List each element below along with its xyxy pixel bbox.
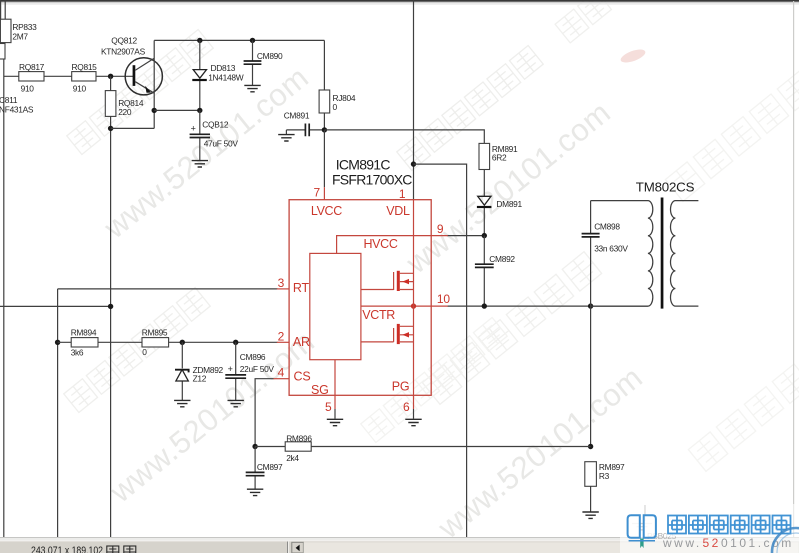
svg-text:CS: CS <box>294 370 311 384</box>
svg-text:5: 5 <box>325 400 332 414</box>
node AR branch <box>55 340 60 345</box>
svg-text:+: + <box>228 364 233 374</box>
resistor RM897 R3 <box>585 462 597 487</box>
svg-text:2: 2 <box>278 329 285 343</box>
transformer TM802CS <box>591 180 699 309</box>
capacitor CM892 <box>475 236 516 307</box>
svg-text:TM802CS: TM802CS <box>636 180 695 195</box>
transistor QQ812 KTN2907AS <box>101 36 162 129</box>
node CM898 bottom <box>588 303 593 308</box>
svg-text:RQ815: RQ815 <box>72 62 98 72</box>
svg-text:DD813: DD813 <box>211 63 236 73</box>
node CQB12 top <box>197 108 202 113</box>
svg-text:0: 0 <box>142 347 147 357</box>
capacitor CM898 33n 630V <box>582 201 629 307</box>
svg-text:DM891: DM891 <box>496 199 522 209</box>
IC outer box <box>289 200 431 396</box>
svg-text:CM897: CM897 <box>257 462 283 472</box>
svg-text:0: 0 <box>333 102 338 112</box>
status bar <box>0 537 799 553</box>
svg-text:3: 3 <box>278 276 285 290</box>
wire top bus <box>154 39 324 41</box>
wire rail to x466 <box>414 164 467 540</box>
svg-text:910: 910 <box>73 84 87 94</box>
right canvas border <box>793 1 795 540</box>
svg-text:ICM891C: ICM891C <box>336 157 391 173</box>
wire bus to RJ804 <box>323 40 325 90</box>
svg-text:QQ812: QQ812 <box>111 36 137 46</box>
svg-text:1N4148W: 1N4148W <box>208 73 244 83</box>
wire vcc rail to RM891 <box>324 130 484 144</box>
svg-text:3k6: 3k6 <box>71 348 84 358</box>
ground pin6 <box>405 419 421 425</box>
svg-text:2k4: 2k4 <box>286 453 299 463</box>
node CM890 top <box>250 38 255 43</box>
svg-text:CM896: CM896 <box>240 352 266 362</box>
diode DD813 1N4148W <box>192 40 243 110</box>
diode DM891 <box>477 170 523 236</box>
node VDL rail <box>411 161 416 166</box>
capacitor CM891 <box>284 111 325 137</box>
svg-text:RM895: RM895 <box>142 327 168 337</box>
svg-text:CM890: CM890 <box>257 51 283 61</box>
clipped component at left edge <box>0 44 5 60</box>
ground CQB12 <box>192 161 208 167</box>
capacitor CM890 <box>244 40 283 85</box>
svg-text:RM894: RM894 <box>71 327 97 337</box>
node VCTR red junction <box>411 303 416 308</box>
node CS/RM896/CM897 <box>252 444 257 449</box>
resistor RM891 <box>479 143 490 169</box>
resistor RM896 2k4 <box>285 442 311 451</box>
svg-text:1: 1 <box>399 187 406 201</box>
svg-text:CQB12: CQB12 <box>202 120 229 130</box>
wire net row y76 <box>4 75 134 77</box>
svg-text:22uF 50V: 22uF 50V <box>240 364 275 374</box>
svg-text:33n 630V: 33n 630V <box>594 244 628 254</box>
scrollbar left arrow <box>292 542 304 553</box>
svg-text:R3: R3 <box>599 471 610 481</box>
wire RT net <box>58 288 278 290</box>
wire left clipped edge <box>0 0 2 19</box>
node pin9/DM891 <box>482 233 487 238</box>
resistor RM895 0 <box>142 338 169 347</box>
svg-text:KTN2907AS: KTN2907AS <box>101 47 146 57</box>
node DD813 top <box>197 38 202 43</box>
pin 5 (SG) <box>334 360 336 409</box>
wire pin7 drop <box>323 130 325 187</box>
svg-text:10: 10 <box>437 292 450 306</box>
logo watermark 520101 <box>620 504 799 553</box>
pin 4 CS <box>274 378 290 380</box>
svg-text:RQ817: RQ817 <box>19 62 45 72</box>
wire CM898 down to RM897 <box>590 306 592 446</box>
capacitor CM897 <box>246 447 283 489</box>
svg-text:52: 52 <box>703 536 721 550</box>
svg-text:SG: SG <box>311 383 329 397</box>
node lower-left <box>108 304 113 309</box>
transistor Q lower MOSFET <box>361 324 414 344</box>
ground RM897 <box>582 512 598 518</box>
svg-text:AR: AR <box>293 335 310 349</box>
ground CM896 <box>228 400 244 406</box>
svg-text:6: 6 <box>403 400 410 414</box>
svg-text:2M7: 2M7 <box>12 32 28 42</box>
svg-text:CM892: CM892 <box>489 254 515 264</box>
pin 6 (PG) <box>413 395 415 409</box>
wire pin9 black part <box>448 235 485 237</box>
svg-text:HVCC: HVCC <box>364 237 398 251</box>
svg-text:RM896: RM896 <box>286 433 312 443</box>
schematic fragment behind logo (ground + label PSB025) <box>632 505 652 530</box>
svg-text:243.071 x 189.102: 243.071 x 189.102 <box>31 545 103 553</box>
svg-text:910: 910 <box>21 84 35 94</box>
resistor RJ804 <box>319 90 330 113</box>
wire HVCC (pin 9) <box>337 236 448 254</box>
svg-text:PG: PG <box>392 379 410 393</box>
wire AR net <box>58 341 278 343</box>
wire y110 <box>154 109 200 111</box>
svg-text:NF431AS: NF431AS <box>0 105 34 115</box>
svg-text:47uF 50V: 47uF 50V <box>204 139 239 149</box>
svg-text:FSFR1700XC: FSFR1700XC <box>332 172 412 188</box>
svg-text:VCTR: VCTR <box>362 308 395 322</box>
resistor RP833 <box>4 0 6 19</box>
ground CM890 <box>244 85 260 91</box>
wire RM896 net <box>255 446 590 448</box>
svg-text:9: 9 <box>437 222 444 236</box>
wire emitter link <box>111 127 155 129</box>
wire VCTR (pin 10) <box>361 305 448 307</box>
node RQ814 bottom <box>108 126 113 131</box>
watermark pattern (decorative) <box>67 29 213 154</box>
svg-text:RT: RT <box>293 281 310 295</box>
node RM896/RM897 junction <box>588 444 593 449</box>
pin 7 stub <box>323 187 325 200</box>
node CM896 top <box>233 340 238 345</box>
resistor RQ815 <box>72 72 96 81</box>
zener ZDM892 Z12 <box>175 342 224 400</box>
resistor RM894 3k6 <box>71 338 98 347</box>
pin 3 RT <box>277 288 289 290</box>
resistor RQ817 <box>19 72 44 81</box>
capacitor CM896 22uF 50V <box>225 342 274 400</box>
top window border <box>0 0 799 2</box>
wire CS net <box>255 379 273 447</box>
node ZDM892 top <box>180 340 185 345</box>
svg-text:CM898: CM898 <box>594 222 620 232</box>
wire lower-left net <box>0 305 111 307</box>
IC inner block <box>310 253 361 359</box>
svg-text:7: 7 <box>314 186 321 200</box>
wire VDL internal drop (pin1 to FETs) <box>413 200 415 396</box>
svg-text:www.: www. <box>662 536 702 550</box>
svg-text:6R2: 6R2 <box>492 153 507 163</box>
ground CM897 <box>247 489 263 495</box>
node base junction <box>108 74 113 79</box>
svg-text:+: + <box>191 124 196 134</box>
node RJ804/CM891 <box>322 127 327 132</box>
wire left long vertical <box>3 59 5 538</box>
node emitter/net <box>152 108 157 113</box>
svg-text:C811: C811 <box>0 95 18 105</box>
capacitor CQB12 47uF 50V <box>190 110 239 160</box>
svg-text:RP833: RP833 <box>12 22 37 32</box>
transistor Q upper MOSFET <box>361 271 414 291</box>
ground pin5 <box>327 419 343 425</box>
svg-text:VDL: VDL <box>386 204 410 218</box>
svg-text:CM891: CM891 <box>284 111 310 121</box>
svg-text:LVCC: LVCC <box>311 204 342 218</box>
pin 2 AR <box>277 341 289 343</box>
wire VDL top drop <box>413 0 415 200</box>
svg-text:220: 220 <box>118 107 132 117</box>
ground ZDM892 <box>174 400 190 406</box>
svg-text:Z12: Z12 <box>193 374 207 384</box>
wire pin10 net (to transformer) <box>448 305 648 307</box>
resistor RQ814 <box>105 91 116 117</box>
ground CM891 <box>278 135 294 141</box>
node pin10/CM892 <box>482 303 487 308</box>
wire RQ814 vertical bus <box>110 76 112 537</box>
svg-text:4: 4 <box>278 365 285 379</box>
